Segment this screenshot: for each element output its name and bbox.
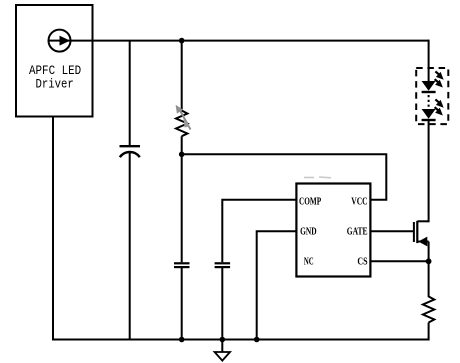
capacitor C1 bottom lead <box>129 152 131 340</box>
resistor R1 (variable, gray arrow) <box>176 105 191 136</box>
wire: bottom ground rail <box>52 339 429 341</box>
svg-text:GND: GND <box>300 227 317 238</box>
ground symbol <box>215 340 230 361</box>
node: junction dot mid node (R1/C2/VCC feed) <box>179 152 185 158</box>
wire: COMP pin to C3 <box>222 200 296 262</box>
dashed LED module box <box>416 68 448 124</box>
LED string branch: top lead into dashed module <box>428 40 430 82</box>
LED D2 <box>422 109 436 120</box>
wire: GATE pin to MOSFET gate <box>370 230 414 232</box>
node: junction dot GND lead bottom <box>254 337 260 343</box>
IC U1 controller box <box>296 184 370 277</box>
LED D2 emission arrows <box>435 99 444 115</box>
wire: C3 bottom lead <box>221 267 223 339</box>
wire: top rail from source to LED string <box>60 40 429 42</box>
wire: CS pin to source node <box>370 260 428 262</box>
node: junction dot source/CS <box>426 258 432 264</box>
svg-text:VCC: VCC <box>351 197 367 208</box>
wire: dotted continuation between LEDs <box>428 95 430 108</box>
wire: R2 bottom lead to rail <box>428 323 430 341</box>
node: junction dot top of R1 branch <box>179 38 185 44</box>
capacitor C1 branch wire top <box>129 41 131 146</box>
capacitor C2 <box>174 263 190 267</box>
label APFC LED Driver <box>29 64 81 92</box>
LED D1 emission arrows <box>435 71 444 87</box>
LED D1 <box>422 81 436 92</box>
MOSFET Q1 <box>414 221 429 247</box>
node: junction dot C2 bottom <box>179 337 185 343</box>
wire: LED string bottom to MOSFET drain <box>428 120 430 222</box>
wire: node to VCC riser <box>182 154 387 200</box>
svg-text:GATE: GATE <box>347 227 368 238</box>
resistor R2 <box>423 297 434 323</box>
node: junction dot C3 bottom / ground <box>220 337 226 343</box>
svg-text:NC: NC <box>304 257 314 268</box>
svg-text:COMP: COMP <box>299 197 321 208</box>
wire: source down to CS node <box>428 242 430 262</box>
wire: C2 bottom lead <box>181 267 183 339</box>
wire: GND pin to bottom rail <box>257 231 297 339</box>
svg-text:Driver: Driver <box>36 78 74 92</box>
APFC LED Driver box U2 <box>16 5 93 117</box>
capacitor C3 <box>215 263 231 267</box>
capacitor C1 (polarized) <box>120 146 141 157</box>
svg-text:APFC LED: APFC LED <box>29 64 81 78</box>
wire: R1 top lead <box>181 41 183 111</box>
svg-text:CS: CS <box>357 257 368 268</box>
wire: R1 bottom lead to node <box>181 136 183 262</box>
current source symbol inside driver box <box>49 30 71 52</box>
faint artifact marks above IC <box>304 176 331 179</box>
wire: CS node to R2 <box>428 261 430 297</box>
wire: driver box bottom lead <box>52 117 54 341</box>
